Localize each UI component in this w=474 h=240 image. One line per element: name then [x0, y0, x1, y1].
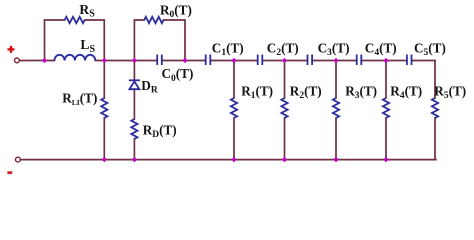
svg-text:C0(T): C0(T) — [162, 66, 194, 84]
svg-text:R5(T): R5(T) — [434, 84, 466, 102]
svg-text:C5(T): C5(T) — [414, 41, 446, 59]
svg-text:R3(T): R3(T) — [345, 84, 377, 102]
svg-text:RLI(T): RLI(T) — [62, 90, 97, 107]
svg-text:R4(T): R4(T) — [390, 84, 422, 102]
svg-text:R1(T): R1(T) — [241, 84, 273, 102]
svg-text:C2(T): C2(T) — [267, 41, 299, 59]
svg-text:R0(T): R0(T) — [160, 2, 192, 20]
svg-text:RD(T): RD(T) — [143, 122, 177, 140]
svg-text:C1(T): C1(T) — [212, 41, 244, 59]
svg-text:C3(T): C3(T) — [318, 41, 350, 59]
svg-text:C4(T): C4(T) — [365, 41, 397, 59]
svg-text:R2(T): R2(T) — [290, 84, 322, 102]
